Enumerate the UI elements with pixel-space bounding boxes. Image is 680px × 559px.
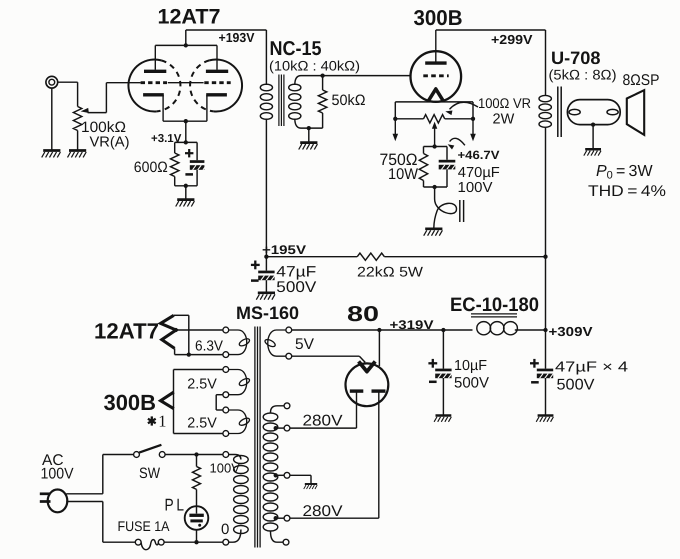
label tube 12AT7 (title) (158, 6, 221, 29)
svg-text:80: 80 (347, 302, 379, 326)
svg-text:280V: 280V (303, 503, 344, 520)
triode V1a envelope (solid+dashed circle) (128, 60, 180, 112)
svg-text:100V: 100V (458, 180, 493, 196)
wire 300B filament bracket (174, 370, 223, 434)
V1a plate (144, 45, 166, 71)
junction dot (center tap) (274, 473, 278, 477)
junction dot (tap A) (274, 426, 278, 430)
wire center tap to ground (290, 475, 311, 484)
wire lamp to bottom rail (196, 530, 198, 542)
svg-text:2.5V: 2.5V (187, 377, 217, 393)
junction dot (50k top) (320, 73, 324, 77)
label 750Ω (380, 151, 418, 169)
label AC (42, 452, 64, 469)
svg-text:470µF: 470µF (458, 165, 500, 181)
capacitor C1 (cathode bypass) (190, 160, 207, 170)
transformer T1 core (279, 75, 284, 127)
wire cathode network top rail (175, 142, 197, 160)
wire +299V rail down to U-708 primary (545, 30, 547, 96)
resistor R4 22kΩ 5W (357, 253, 384, 260)
winding 2.5V (upper) (229, 370, 251, 395)
junction dot (80 filament node) (377, 328, 381, 332)
label +3.1V (151, 133, 182, 145)
svg-text:5V: 5V (295, 336, 315, 353)
AC plug (40, 490, 68, 513)
wire tap A to terminal (276, 427, 284, 429)
svg-text:1: 1 (158, 412, 166, 431)
label 12AT7 (heater) (94, 319, 159, 344)
junction dot (+195V left) (264, 255, 268, 259)
junction dot (PL bottom) (194, 540, 198, 544)
label U-708 (551, 48, 601, 68)
terminal (280V tap B) (284, 515, 290, 521)
wire switch to 100V terminal (165, 454, 223, 456)
V1b cathode (206, 95, 227, 121)
polarity − (C4) (429, 381, 437, 384)
wire U-708 primary bottom down (545, 127, 547, 330)
V2 grid (dashed) (423, 74, 448, 77)
junction dot (C4 top) (441, 328, 445, 332)
wire bias network top rail (424, 147, 448, 160)
label +46.7V (458, 148, 500, 162)
label 6.3V (195, 339, 223, 355)
junction dot (network bottom) (184, 184, 188, 188)
wire 280V tap A to rectifier plate (290, 427, 357, 429)
ground (C5) (536, 416, 553, 422)
label 500V (C4) (454, 375, 489, 392)
junction dot (PL top) (194, 452, 198, 456)
label P0=3W (596, 163, 653, 182)
label SW (139, 465, 161, 482)
label 600Ω (134, 159, 168, 176)
tube V2 300B envelope (411, 51, 462, 102)
wire to ground (NC-15 secondary) (308, 128, 310, 143)
ground (pot) (68, 151, 87, 158)
junction dot (heater bottom) (187, 352, 191, 356)
arrow to 2.5V winding (right) (470, 119, 476, 141)
ground (jack) (42, 151, 61, 158)
V1a grid (dashed) (141, 81, 167, 84)
fuse FUSE 1A (135, 539, 164, 549)
terminal (2.5V-2 top) (223, 407, 229, 413)
wire 5V bottom to filament (292, 356, 366, 362)
terminal (2.5V-1 top) (223, 367, 229, 373)
junction dot (cathodes) (184, 119, 188, 123)
label (5kΩ : 8Ω) (549, 67, 617, 83)
svg-text:6.3V: 6.3V (195, 339, 223, 355)
ground (bias network) (424, 229, 443, 236)
svg-text:280V: 280V (303, 413, 344, 430)
label 100V (primary) (210, 460, 241, 475)
svg-text:500V: 500V (454, 375, 489, 392)
svg-text:0: 0 (221, 521, 229, 538)
V2 filament (428, 89, 443, 101)
pilot lamp PL (185, 506, 209, 530)
junction dot (heater mid) (174, 328, 178, 332)
svg-text:SW: SW (139, 465, 161, 482)
label *1 (148, 412, 167, 431)
svg-text:P L: P L (165, 495, 185, 514)
polarity − (C5) (531, 381, 539, 384)
svg-text:500V: 500V (557, 377, 596, 394)
ground (C4) (434, 416, 451, 422)
wire AC neutral to fuse (66, 502, 135, 543)
wire center tap to terminal (276, 474, 284, 476)
label 2.5V (lower) (187, 415, 217, 431)
hum-bucking coil to ground (434, 187, 457, 228)
wire bias network bottom rail (424, 169, 448, 187)
resistor R3 750Ω 10W (419, 154, 427, 181)
terminal (2.5V-1 bottom) (223, 392, 229, 398)
terminal (100V) (223, 452, 229, 458)
label +309V (549, 324, 593, 339)
capacitor C5 47µF×4 (537, 330, 554, 416)
wire filament bottom bar and drops (395, 102, 473, 119)
junction dot (network top) (184, 140, 188, 144)
V3 filament (359, 361, 376, 371)
resistor R1 600Ω (171, 153, 179, 177)
label 0 (221, 521, 229, 538)
svg-text:MS-160: MS-160 (236, 303, 299, 323)
label 2.5V (upper) (187, 377, 217, 393)
transformer T2 secondary (racetrack) (567, 100, 620, 125)
label VR(A) (90, 134, 130, 150)
tube V3 80 envelope (346, 363, 389, 406)
label EC-10-180 (450, 294, 539, 316)
label THD=4% (588, 183, 666, 200)
leader arrow to wiper (445, 102, 478, 115)
label 100Ω VR (478, 95, 531, 111)
svg-text:(5kΩ : 8Ω): (5kΩ : 8Ω) (549, 67, 617, 83)
svg-text:100V: 100V (41, 465, 75, 482)
ground (speaker return) (584, 149, 601, 155)
wire NC-15 primary bottom to +195V rail (265, 119, 267, 257)
wire pot to ground (77, 131, 79, 151)
label 300B (filament) (104, 390, 157, 415)
terminal (HV bottom end) (283, 539, 289, 545)
coil core ticks (460, 200, 464, 222)
label 47µF×4 (555, 360, 628, 376)
V1b plate (206, 45, 228, 71)
V1a cathode (143, 95, 164, 121)
potentiometer VR1 100kΩ VR(A) (73, 107, 81, 131)
junction dot (secondary center tap) (591, 122, 595, 126)
wire plates junction to +193V rail (155, 30, 266, 45)
wire 300B plate to +299V rail (436, 29, 546, 31)
label 280V (upper) (303, 413, 344, 430)
label +195V (262, 243, 307, 257)
wire +193V rail down to NC-15 primary (265, 30, 267, 85)
junction dot (+309V) (543, 328, 547, 332)
V3 plate right (372, 391, 386, 518)
V2 plate (425, 30, 446, 63)
filament of 300B (bold chevron) (161, 392, 174, 409)
junction dot (+195V right) (543, 255, 547, 259)
wire +195V rail (266, 256, 545, 258)
polarity + (C5) (530, 359, 539, 368)
svg-text:500V: 500V (276, 279, 317, 296)
label 22kΩ 5W (357, 264, 424, 280)
svg-text:EC-10-180: EC-10-180 (450, 294, 539, 316)
polarity − (C1) (185, 173, 193, 176)
wire fuse to 0 terminal (164, 541, 223, 543)
svg-text:300B: 300B (414, 6, 463, 30)
junction dot (bias top) (432, 144, 436, 148)
svg-text:P0 = 3W: P0 = 3W (596, 163, 653, 182)
terminal (0) (223, 539, 229, 545)
terminal (HV top end) (284, 403, 290, 409)
potentiometer VR2 100Ω hum balance (395, 115, 473, 123)
choke L1 EC-10-180 (477, 322, 518, 335)
label PL (165, 495, 185, 514)
switch SW (134, 445, 166, 458)
transformer T3 core (255, 327, 260, 548)
terminal (5V bottom) (286, 353, 292, 359)
label 8ΩSP (623, 72, 660, 89)
wire tap B to terminal (276, 517, 284, 519)
ground (cathode network) (176, 200, 195, 207)
svg-text:47µF × 4: 47µF × 4 (555, 360, 628, 376)
wire +319V rail (292, 330, 473, 366)
winding HV secondary (263, 406, 284, 542)
label +319V (390, 318, 435, 332)
wire cathodes junction (163, 121, 207, 142)
svg-text:100Ω VR: 100Ω VR (478, 95, 531, 111)
terminal (HV center tap) (284, 472, 290, 478)
svg-text:8ΩSP: 8ΩSP (623, 72, 660, 89)
leader arrow from +46.7V (448, 138, 465, 149)
svg-text:2.5V: 2.5V (187, 415, 217, 431)
svg-text:+3.1V: +3.1V (151, 133, 182, 145)
resistor R5 (pilot series) (193, 455, 201, 514)
junction dot (plates) (184, 43, 188, 47)
label tube 80 (title) (347, 302, 379, 326)
triode V1b envelope (solid+dashed circle) (190, 60, 242, 112)
capacitor C2 470µF (439, 160, 456, 170)
secondary eye right (607, 109, 618, 114)
svg-text:12AT7: 12AT7 (94, 319, 159, 344)
wire NC-15 secondary top to 300B grid (295, 76, 411, 85)
terminal (280V tap A) (284, 425, 290, 431)
label +193V (219, 30, 255, 45)
polarity + (C1) (185, 149, 193, 157)
junction dot (tap B) (274, 516, 278, 520)
svg-text:600Ω: 600Ω (134, 159, 168, 176)
svg-text:47µF: 47µF (276, 263, 316, 280)
label 100V (C2) (458, 180, 493, 196)
label 10W (388, 166, 418, 183)
transformer T2 U-708 primary winding (539, 95, 551, 127)
svg-text:22kΩ 5W: 22kΩ 5W (357, 264, 424, 280)
wire center tap to ground (592, 125, 594, 150)
transformer T1 NC-15 secondary winding (289, 84, 301, 119)
junction dot (hum pot right) (471, 117, 475, 121)
wire choke to +309V node (515, 329, 546, 331)
wire NC-15 secondary bottom (295, 119, 323, 129)
wire series link 2.5V windings (216, 395, 223, 410)
ground (C3) (256, 293, 275, 300)
svg-text:VR(A): VR(A) (90, 134, 130, 150)
polarity + (C3) (251, 261, 260, 270)
capacitor C4 10µF (435, 330, 452, 416)
choke core (471, 314, 517, 317)
svg-text:100V: 100V (210, 460, 241, 475)
heater of 12AT7 (bold zigzag) (161, 315, 176, 348)
junction dot (secondary bottom) (307, 126, 311, 130)
terminal (2.5V-2 bottom) (223, 431, 229, 437)
label 500V (C3) (276, 279, 317, 296)
svg-text:+299V: +299V (491, 32, 533, 47)
svg-text:THD = 4%: THD = 4% (588, 183, 666, 200)
label 280V (lower) (303, 503, 344, 520)
label tube 300B (title) (414, 6, 463, 30)
label (10kΩ : 40kΩ) (269, 58, 360, 73)
terminal (6.3V top) (223, 327, 229, 333)
wire jack to volume pot (58, 82, 78, 106)
wire heater loop (174, 315, 223, 354)
V3 plate left (350, 391, 364, 428)
svg-text:10µF: 10µF (454, 358, 487, 374)
label FUSE 1A (118, 518, 171, 534)
wiper arrow of VR2 (432, 122, 437, 147)
junction dot (bias bottom) (432, 185, 436, 189)
svg-text:+46.7V: +46.7V (458, 148, 500, 162)
V1b grid (dashed) (204, 81, 230, 84)
label NC-15 (270, 38, 322, 60)
svg-text:(10kΩ : 40kΩ): (10kΩ : 40kΩ) (269, 58, 360, 73)
label 470µF (458, 165, 500, 181)
wire 280V tap B to rectifier plate (290, 517, 379, 519)
terminal (6.3V bottom) (223, 352, 229, 358)
polarity − (C3) (251, 279, 259, 282)
svg-text:U-708: U-708 (551, 48, 601, 68)
arrow to 2.5V winding (left) (393, 119, 399, 141)
winding 2.5V (lower) (229, 410, 251, 434)
svg-text:10W: 10W (388, 166, 418, 183)
svg-text:NC-15: NC-15 (270, 38, 322, 60)
speaker 8Ω SP (627, 90, 644, 135)
winding 6.3V (229, 330, 251, 355)
transformer T1 NC-15 primary winding (260, 84, 272, 119)
input jack J1 (46, 76, 58, 88)
resistor R2 50kΩ (318, 76, 326, 129)
terminal (5V top) (286, 327, 292, 333)
label MS-160 (236, 303, 299, 323)
ground (HV center tap) (304, 484, 317, 489)
pot wiper arrow and wire to grid (81, 83, 141, 113)
winding 100V primary (229, 455, 249, 543)
label 100kΩ (81, 119, 126, 136)
ground (NC-15 secondary) (299, 143, 318, 150)
wire cathode network bottom rail (175, 170, 197, 200)
label 10µF (454, 358, 487, 374)
label 47µF (276, 263, 316, 280)
transformer T2 core (558, 87, 561, 138)
junction dot (hum pot left) (393, 117, 397, 121)
polarity + (C4) (428, 359, 437, 368)
svg-text:+319V: +319V (390, 318, 435, 332)
svg-text:300B: 300B (104, 390, 157, 415)
svg-text:50kΩ: 50kΩ (332, 92, 366, 109)
capacitor C3 47µF decoupling (258, 257, 275, 293)
wire AC hot to switch (66, 455, 133, 494)
secondary eye left (569, 109, 580, 114)
label 5V (295, 336, 315, 353)
label 100V (AC) (41, 465, 75, 482)
svg-text:2W: 2W (493, 112, 515, 128)
svg-text:+309V: +309V (549, 324, 593, 339)
winding 5V (264, 330, 286, 356)
wire jack to ground (51, 88, 53, 150)
svg-text:FUSE 1A: FUSE 1A (118, 518, 171, 534)
label 2W (493, 112, 515, 128)
svg-text:12AT7: 12AT7 (158, 6, 221, 29)
svg-text:+193V: +193V (219, 30, 255, 45)
wire grid link between sections (168, 82, 204, 84)
label 500V (C5) (557, 377, 596, 394)
label +299V (491, 32, 533, 47)
label 50kΩ (332, 92, 366, 109)
svg-text:+195V: +195V (262, 243, 307, 257)
